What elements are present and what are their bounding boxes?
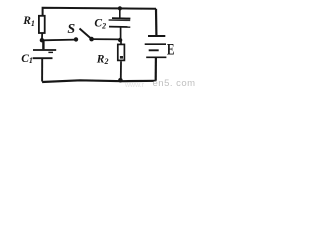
node bottom (R2 tap on bottom wire) [118,78,123,83]
battery E [145,36,167,57]
wire right top (corner down to battery) [155,9,158,35]
resistor R2 [118,40,125,79]
node top (C2 tap on top wire) [118,6,122,10]
wire bottom [42,80,156,82]
svg-text:www.r: www.r [124,82,145,88]
wire right bottom (battery to bottom wire) [155,58,157,81]
capacitor C2 [109,8,131,38]
capacitor C1 [33,41,57,82]
wire middle left segment [42,39,76,42]
switch S [74,29,94,42]
resistor R1 [39,16,45,39]
node A (R1/C1/switch junction) [40,38,44,42]
node B (switch/C2/R2 junction) [118,38,122,42]
svg-text:en5. com: en5. com [153,78,196,88]
svg-text:E: E [167,41,175,58]
wire top [43,8,156,15]
svg-text:S: S [67,22,75,37]
wire middle right segment [92,38,120,40]
